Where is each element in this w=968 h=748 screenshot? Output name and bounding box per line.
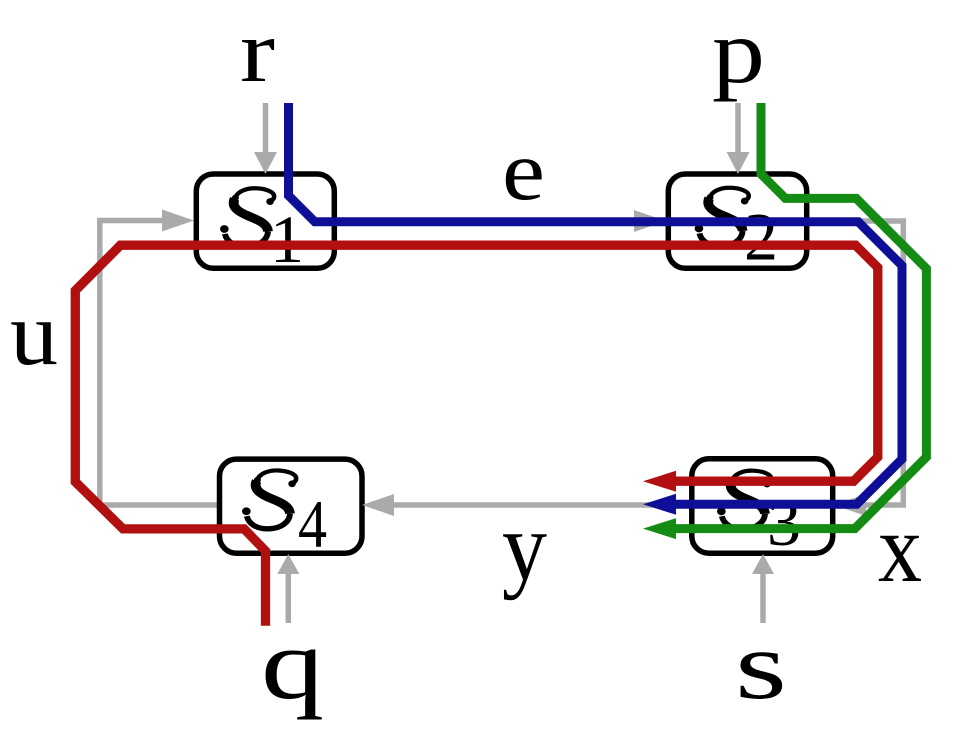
- svg-text:e: e: [502, 124, 545, 218]
- svg-text:y: y: [502, 493, 547, 600]
- svg-text:q: q: [261, 608, 324, 720]
- svg-text:r: r: [240, 3, 275, 101]
- svg-text:1: 1: [270, 201, 304, 277]
- svg-text:4: 4: [298, 486, 327, 562]
- svg-text:x: x: [878, 494, 922, 603]
- svg-text:p: p: [712, 1, 765, 102]
- svg-text:s: s: [735, 612, 787, 719]
- svg-text:u: u: [10, 283, 58, 384]
- svg-text:2: 2: [744, 199, 778, 275]
- svg-text:3: 3: [767, 484, 801, 560]
